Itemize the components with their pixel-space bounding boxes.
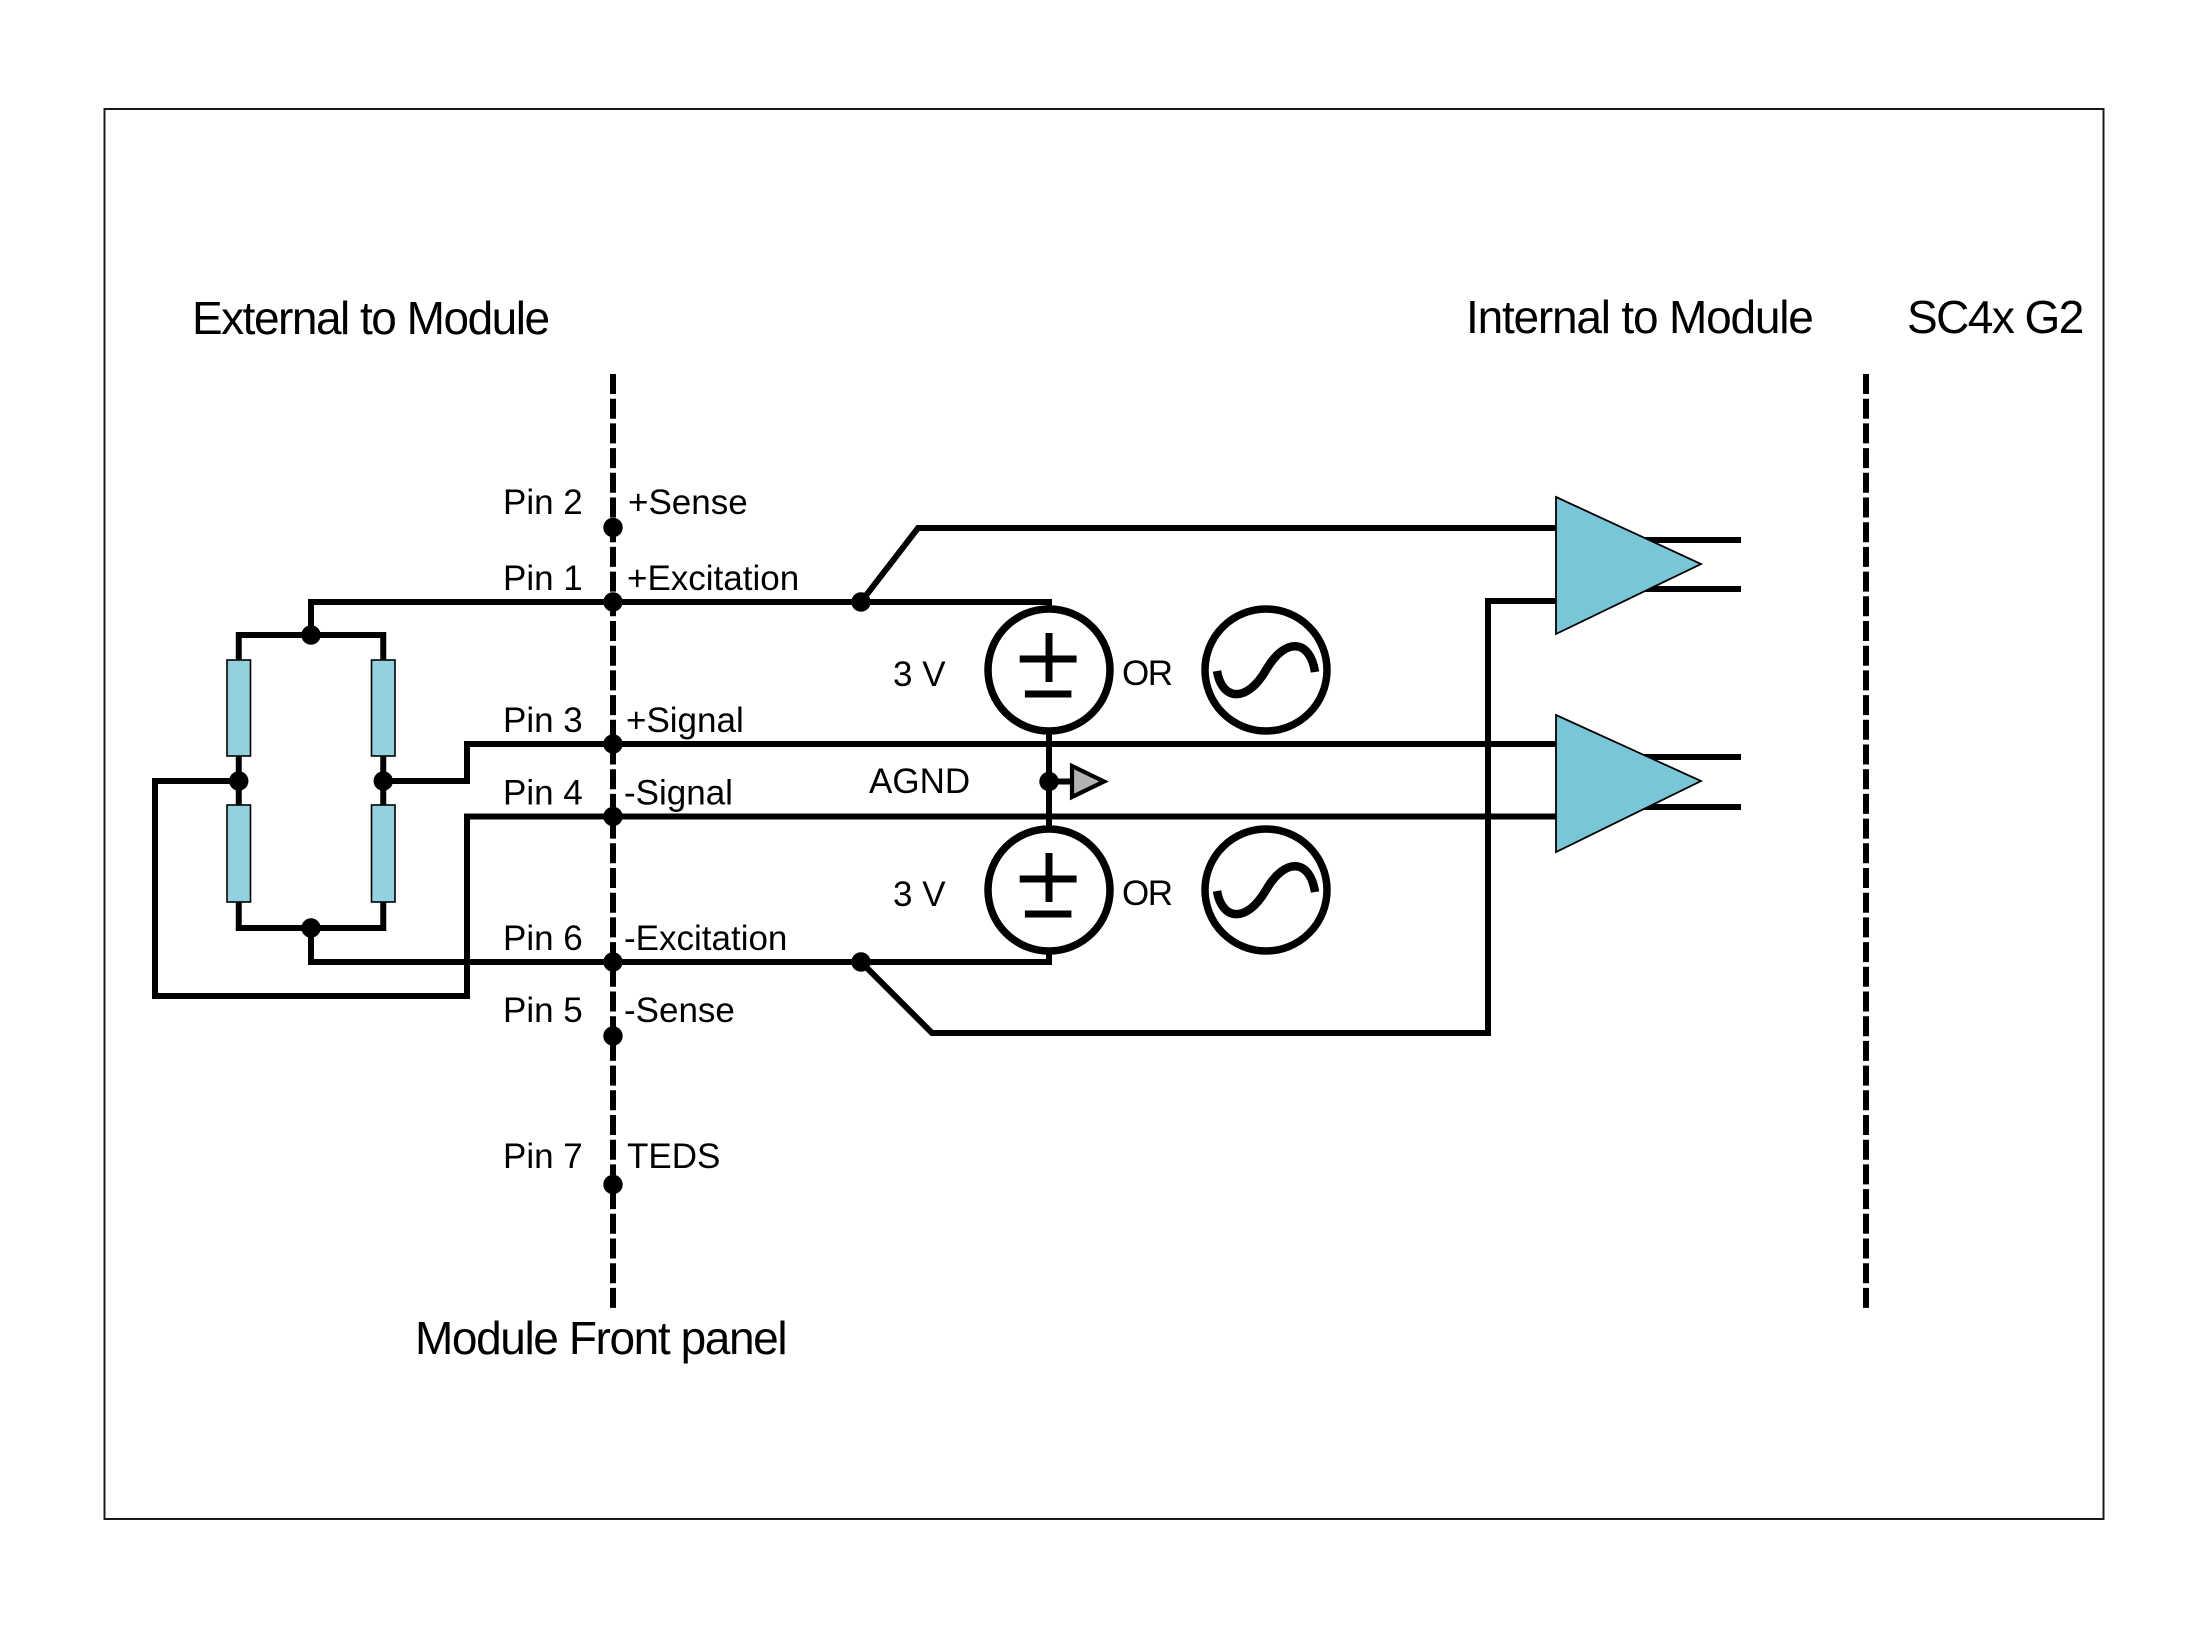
svg-text:Pin 4: Pin 4 bbox=[503, 774, 583, 813]
svg-text:OR: OR bbox=[1122, 874, 1172, 913]
svg-text:-Signal: -Signal bbox=[624, 774, 733, 813]
svg-text:SC4x G2: SC4x G2 bbox=[1907, 291, 2083, 343]
svg-text:Pin 7: Pin 7 bbox=[503, 1137, 583, 1176]
svg-text:Pin 3: Pin 3 bbox=[503, 701, 583, 740]
svg-text:Internal to Module: Internal to Module bbox=[1466, 291, 1813, 343]
svg-text:TEDS: TEDS bbox=[627, 1137, 720, 1176]
svg-text:+Signal: +Signal bbox=[626, 701, 744, 740]
svg-text:+Excitation: +Excitation bbox=[627, 559, 799, 598]
svg-text:3 V: 3 V bbox=[893, 655, 946, 694]
svg-text:3 V: 3 V bbox=[893, 875, 946, 914]
svg-text:OR: OR bbox=[1122, 654, 1172, 693]
svg-text:-Excitation: -Excitation bbox=[624, 919, 787, 958]
svg-text:AGND: AGND bbox=[869, 762, 970, 801]
svg-text:Pin 2: Pin 2 bbox=[503, 483, 583, 522]
svg-text:Pin 1: Pin 1 bbox=[503, 559, 583, 598]
svg-text:Pin 5: Pin 5 bbox=[503, 991, 583, 1030]
svg-text:External to Module: External to Module bbox=[192, 292, 549, 344]
svg-text:Pin 6: Pin 6 bbox=[503, 919, 583, 958]
svg-text:+Sense: +Sense bbox=[628, 483, 748, 522]
svg-text:Module Front panel: Module Front panel bbox=[415, 1312, 786, 1364]
svg-text:-Sense: -Sense bbox=[624, 991, 735, 1030]
